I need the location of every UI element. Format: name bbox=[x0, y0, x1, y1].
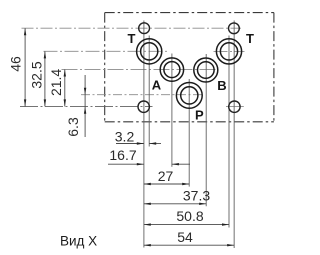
svg-text:21.4: 21.4 bbox=[48, 69, 64, 96]
port T left (double circle) bbox=[137, 39, 162, 64]
reference row line y=106.6 left part bbox=[20, 106, 153, 108]
dimension 3.2 (arrows outside) bbox=[116, 143, 144, 145]
dimension 54 bbox=[144, 244, 234, 246]
svg-text:6.3: 6.3 bbox=[65, 117, 81, 137]
mounting hole bottom-right bbox=[229, 101, 240, 112]
centerline row: top holes y=28.2 bbox=[22, 27, 242, 29]
svg-text:B: B bbox=[217, 78, 226, 93]
extension line row: P port y=94.7 (dash-dot) bbox=[81, 94, 203, 96]
port T right (double circle) bbox=[216, 39, 241, 64]
dimension 21.4 line bbox=[64, 70, 66, 107]
mounting hole top-left bbox=[139, 23, 150, 34]
svg-text:P: P bbox=[195, 107, 204, 122]
svg-text:27: 27 bbox=[158, 168, 174, 184]
svg-text:37.3: 37.3 bbox=[183, 188, 210, 204]
extension line row: T ports y=51.35 bbox=[44, 50, 169, 52]
svg-text:T: T bbox=[128, 31, 136, 46]
vertical extension: T-right x=229 bbox=[228, 36, 230, 228]
centerline tick: right T port bbox=[214, 50, 245, 52]
svg-text:50.8: 50.8 bbox=[176, 208, 203, 224]
vertical extension: T-left x=149.2 bbox=[148, 36, 150, 147]
mounting hole bottom-left bbox=[138, 101, 149, 112]
dimension 16.7 (arrows outside) bbox=[108, 163, 144, 165]
port A (double circle) bbox=[160, 58, 183, 81]
dimension 32.5 line bbox=[44, 51, 46, 106]
svg-text:32.5: 32.5 bbox=[28, 61, 44, 88]
svg-text:A: A bbox=[152, 77, 162, 92]
port P (double circle) bbox=[176, 83, 202, 109]
vertical centerline/extension: right hole column x=234.15 bbox=[233, 21, 235, 249]
vertical extension: A x=171.9 bbox=[171, 54, 173, 167]
extension line row: A,B ports y=69.4 bbox=[62, 68, 219, 70]
dimension 6.3 line (arrows outside) bbox=[84, 75, 86, 137]
dimension 37.3 bbox=[144, 203, 206, 205]
svg-text:16.7: 16.7 bbox=[109, 147, 136, 163]
svg-text:Вид Х: Вид Х bbox=[60, 234, 97, 249]
mounting hole top-right bbox=[229, 23, 240, 34]
dimension 46 line bbox=[24, 28, 26, 106]
plate outline rectangle (phantom chain line) bbox=[105, 13, 274, 122]
centerline tick: bottom-right hole bbox=[226, 106, 244, 108]
svg-text:3.2: 3.2 bbox=[115, 128, 135, 144]
vertical centerline/extension: left hole column x=143.9 bbox=[143, 21, 145, 248]
dimension 50.8 bbox=[144, 224, 229, 226]
svg-text:46: 46 bbox=[8, 56, 24, 72]
vertical extension: P x=189.2 bbox=[188, 79, 190, 187]
svg-text:54: 54 bbox=[177, 229, 193, 245]
svg-text:T: T bbox=[246, 31, 254, 46]
vertical extension: B x=206.2 bbox=[205, 54, 207, 206]
dimension 27 bbox=[144, 183, 189, 185]
port B (double circle) bbox=[194, 58, 218, 82]
